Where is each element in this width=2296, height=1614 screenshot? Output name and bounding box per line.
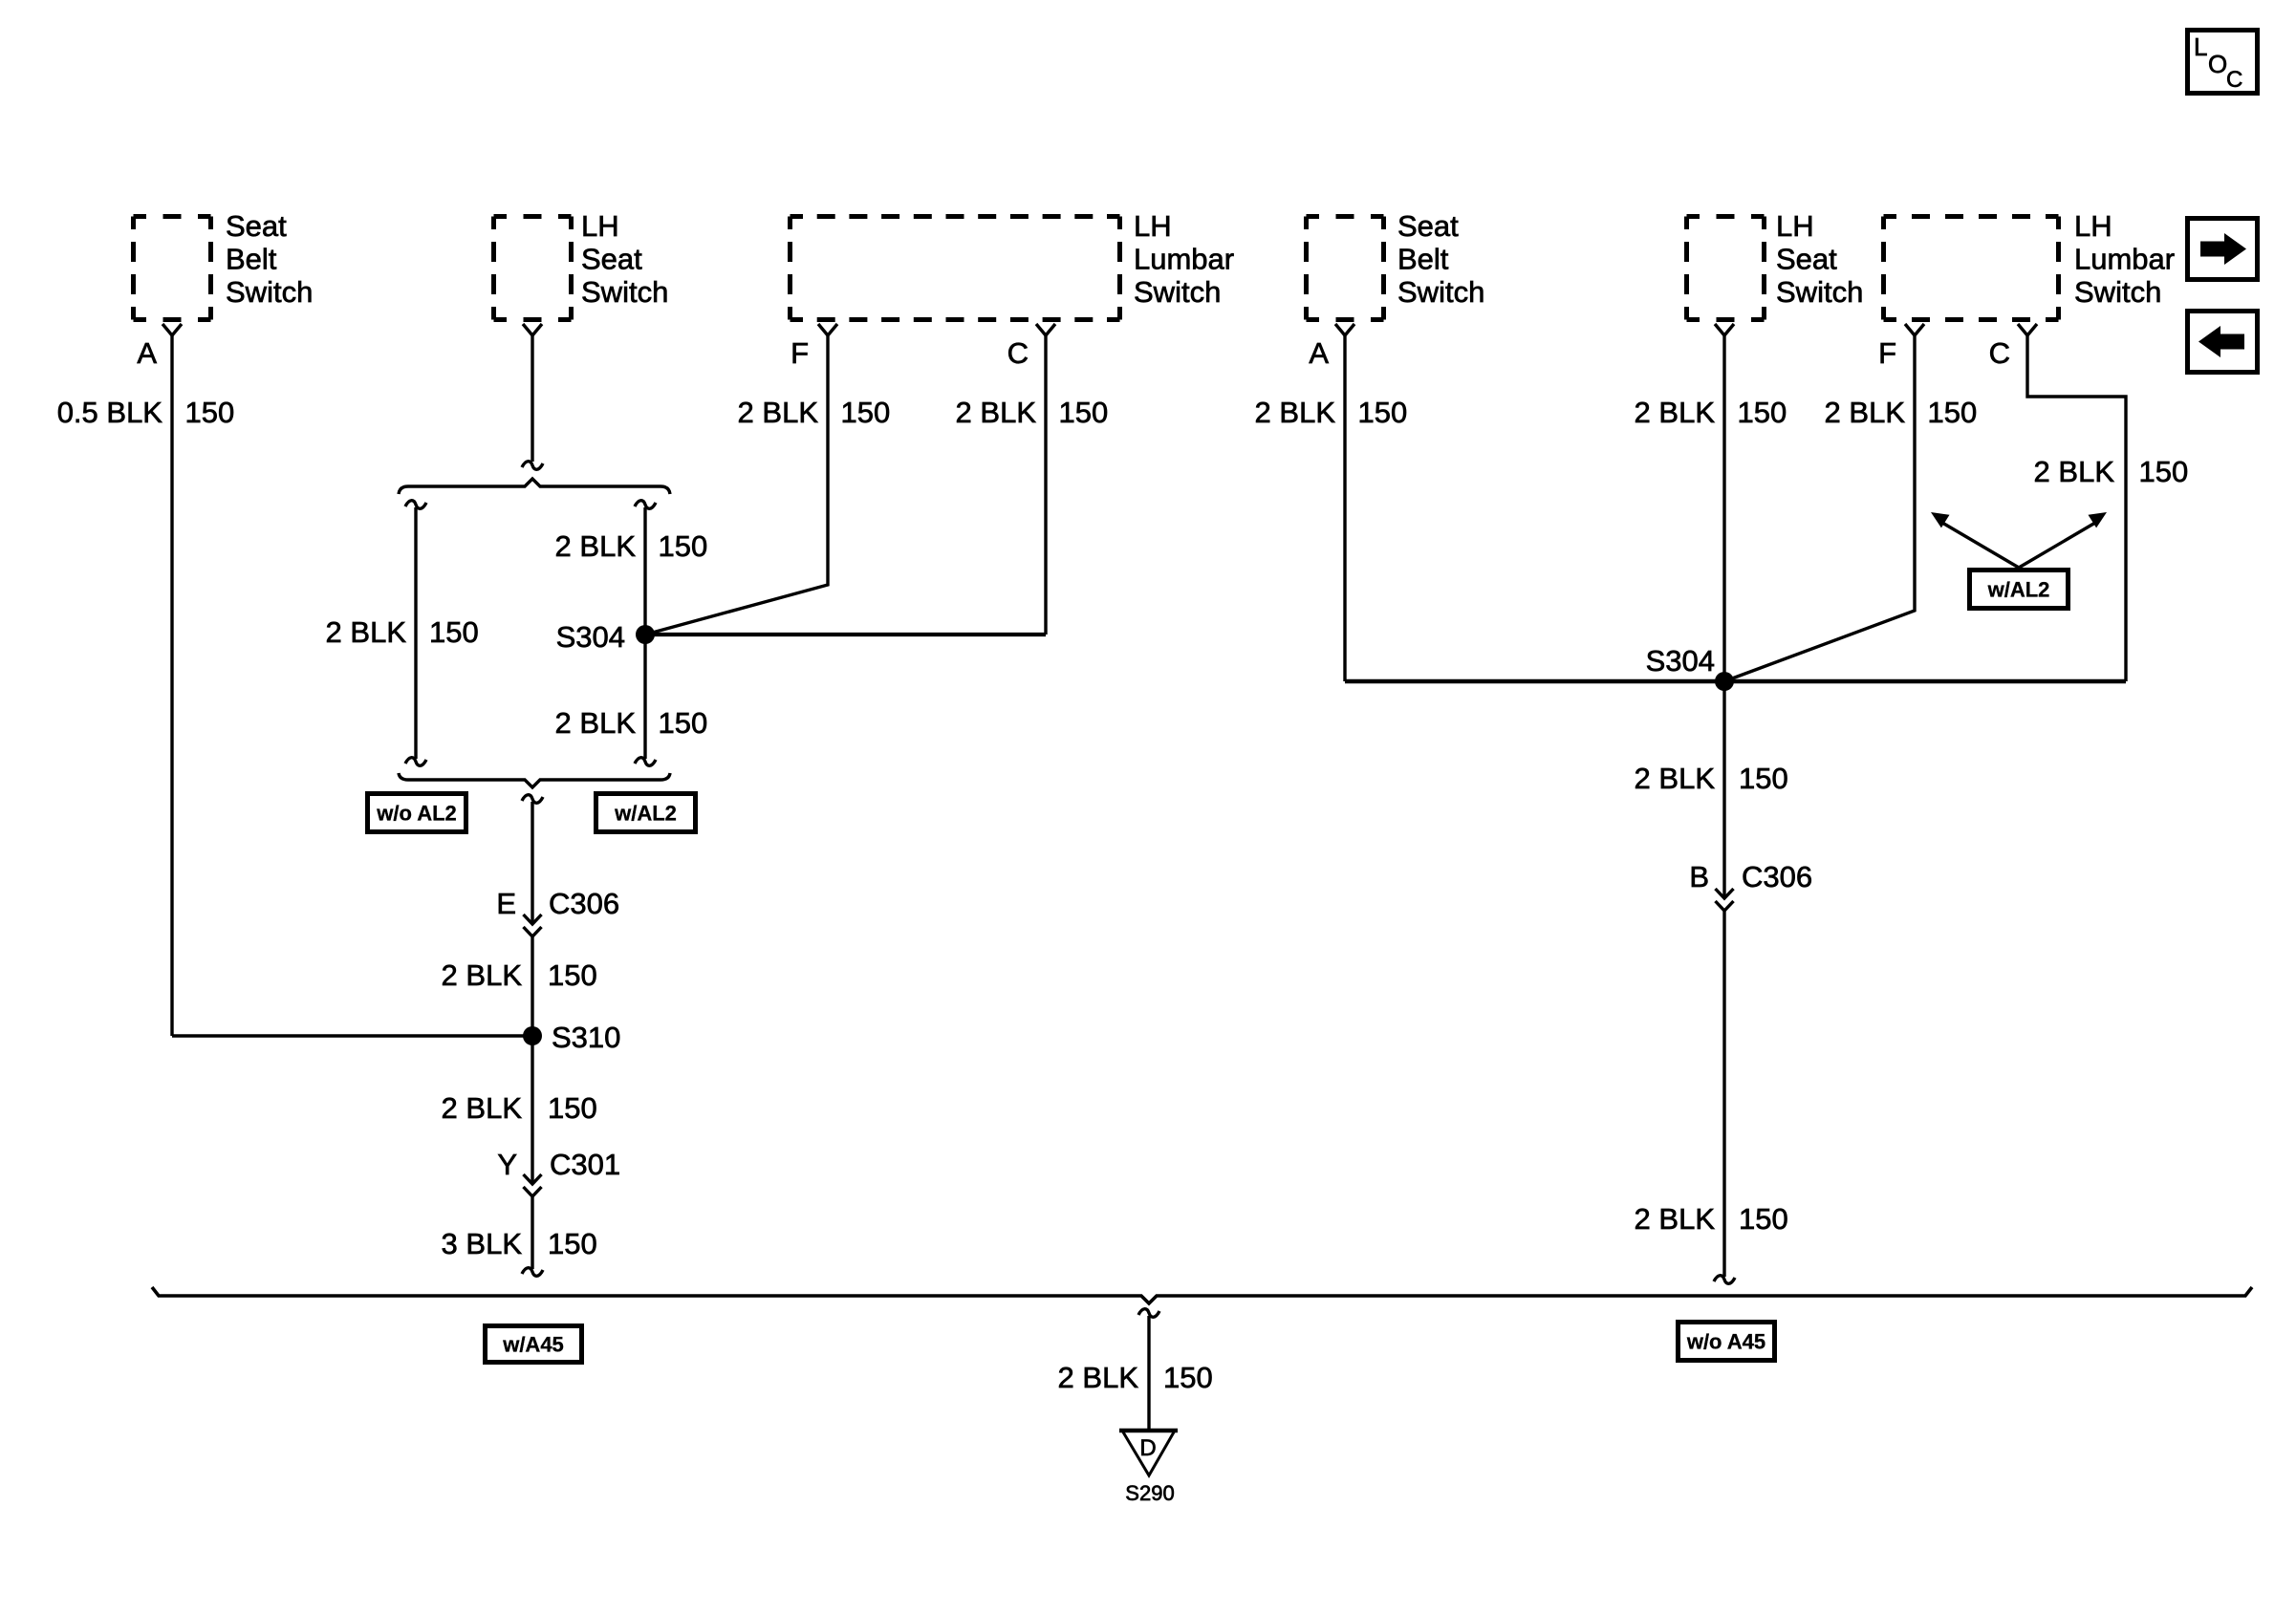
svg-text:150: 150 <box>429 615 479 649</box>
pin F of LH Lumbar Switch (right) <box>1905 324 1924 335</box>
wire break top of w/AL2 branch <box>635 501 656 509</box>
wire break top of w/o AL2 branch <box>405 501 426 509</box>
svg-text:150: 150 <box>659 529 708 563</box>
wire w/o AL2 branch 2 BLK 150 (left) <box>414 507 417 759</box>
svg-text:Switch: Switch <box>1397 275 1484 309</box>
svg-text:150: 150 <box>659 706 708 740</box>
svg-text:B: B <box>1689 860 1709 893</box>
svg-text:150: 150 <box>185 396 235 429</box>
svg-text:S304: S304 <box>1646 644 1715 678</box>
label LH Seat Switch (left) <box>581 209 668 309</box>
svg-text:150: 150 <box>548 1227 597 1260</box>
label LH Lumbar Switch (right) <box>2074 209 2175 309</box>
wire break bottom of w/AL2 branch <box>635 758 656 766</box>
wire 2 BLK 150 from pin C to splice S304 (right) <box>2027 335 2126 681</box>
svg-text:150: 150 <box>2139 455 2189 488</box>
wire from harness split to connector C306 pin E <box>531 802 533 924</box>
svg-text:150: 150 <box>1738 396 1787 429</box>
svg-text:3 BLK: 3 BLK <box>442 1227 523 1260</box>
brace: harness alternatives bottom (left) <box>399 773 670 787</box>
svg-text:Switch: Switch <box>1134 275 1221 309</box>
svg-text:C301: C301 <box>550 1148 620 1181</box>
connector box: Seat Belt Switch (left) <box>134 217 211 320</box>
svg-text:Belt: Belt <box>1397 243 1449 276</box>
svg-text:LH: LH <box>2074 209 2112 243</box>
splice S304 (right) <box>1715 672 1734 691</box>
wire break above main harness brace (left) <box>522 1268 543 1277</box>
label Seat Belt Switch (left) <box>226 209 313 309</box>
svg-text:C306: C306 <box>1742 860 1812 893</box>
main junction run from pin A wire to pin C wire through S304 (right) <box>1345 679 2126 684</box>
pin C of LH Lumbar Switch (left) <box>1036 324 1055 335</box>
wire 2 BLK 150 from C306 to splice S310 <box>531 936 533 1184</box>
svg-text:150: 150 <box>1739 1202 1788 1236</box>
wire 2 BLK 150 from pin F to splice S304 (right) <box>1724 335 1915 681</box>
wire 3 BLK 150 from C301 to w/A45 harness <box>531 1196 533 1269</box>
svg-text:Seat: Seat <box>1776 243 1837 276</box>
svg-text:2 BLK: 2 BLK <box>1635 396 1716 429</box>
svg-text:2 BLK: 2 BLK <box>326 615 407 649</box>
svg-text:S304: S304 <box>556 620 625 654</box>
option box w/A45 <box>486 1326 582 1363</box>
wire break below harness braces (left) <box>522 795 543 804</box>
svg-text:150: 150 <box>1739 762 1788 795</box>
svg-text:w/AL2: w/AL2 <box>1987 578 2050 602</box>
wire 2 BLK 150 from S304 to connector C306 pin B <box>1722 681 1725 898</box>
svg-text:150: 150 <box>1163 1361 1213 1394</box>
svg-text:0.5 BLK: 0.5 BLK <box>57 396 163 429</box>
option box w/AL2 (right) with pointer arrows <box>1970 570 2069 609</box>
wire 2 BLK 150 to ground G-D <box>1147 1316 1150 1431</box>
svg-text:2 BLK: 2 BLK <box>555 529 637 563</box>
svg-text:A: A <box>137 336 157 370</box>
svg-text:150: 150 <box>1358 396 1408 429</box>
svg-text:w/o AL2: w/o AL2 <box>376 802 457 826</box>
svg-text:Lumbar: Lumbar <box>2074 243 2175 276</box>
option box w/AL2 (left) <box>596 794 696 832</box>
svg-text:D: D <box>1139 1435 1156 1461</box>
label LH Lumbar Switch (left) <box>1134 209 1234 309</box>
splice S304 (left) <box>636 625 655 644</box>
svg-text:Seat: Seat <box>1397 209 1459 243</box>
svg-text:2 BLK: 2 BLK <box>2034 455 2115 488</box>
wire w/AL2 branch upper 2 BLK 150 (left) <box>643 507 646 759</box>
nav box arrow left <box>2188 312 2258 373</box>
svg-text:Lumbar: Lumbar <box>1134 243 1234 276</box>
svg-text:w/o A45: w/o A45 <box>1686 1330 1765 1354</box>
svg-text:C306: C306 <box>549 887 619 920</box>
svg-text:w/A45: w/A45 <box>502 1333 564 1357</box>
wire break below main harness brace <box>1138 1309 1159 1318</box>
brace: main harness alternatives (w/A45 vs w/o A45) <box>152 1287 2252 1303</box>
svg-text:150: 150 <box>548 1091 597 1125</box>
option box w/o A45 <box>1679 1323 1775 1361</box>
svg-text:2 BLK: 2 BLK <box>956 396 1037 429</box>
connector box: Seat Belt Switch (right) <box>1307 217 1384 320</box>
svg-text:E: E <box>496 887 516 920</box>
svg-text:2 BLK: 2 BLK <box>1635 1202 1716 1236</box>
svg-text:O: O <box>2208 50 2227 78</box>
svg-text:LH: LH <box>1134 209 1172 243</box>
connector box: LH Seat Switch (right) <box>1687 217 1765 320</box>
svg-text:Belt: Belt <box>226 243 277 276</box>
in-line connector C306 pin E symbol <box>524 915 542 924</box>
svg-text:2 BLK: 2 BLK <box>555 706 637 740</box>
svg-text:S290: S290 <box>1125 1481 1174 1505</box>
wire from S304 to LH Lumbar Switch pin C (left), horizontal run <box>645 633 1046 636</box>
wire from S304 to LH Lumbar Switch pin F (left), diagonal+vertical <box>645 335 828 635</box>
svg-text:Switch: Switch <box>226 275 313 309</box>
svg-text:Seat: Seat <box>581 243 642 276</box>
pin of LH Seat Switch (left) <box>523 324 542 335</box>
wire from pin A to splice S310, horizontal run <box>172 1034 532 1037</box>
pin A of Seat Belt Switch (right) <box>1335 324 1354 335</box>
svg-text:Switch: Switch <box>2074 275 2161 309</box>
svg-text:LH: LH <box>581 209 619 243</box>
nav box arrow right <box>2188 219 2258 280</box>
svg-text:F: F <box>791 336 809 370</box>
svg-text:C: C <box>1007 336 1029 370</box>
in-line connector C301 pin Y symbol <box>524 1174 542 1184</box>
svg-text:w/AL2: w/AL2 <box>614 802 677 826</box>
option box w/o AL2 <box>368 794 466 832</box>
svg-text:Switch: Switch <box>581 275 668 309</box>
label LH Seat Switch (right) <box>1776 209 1863 309</box>
svg-text:Switch: Switch <box>1776 275 1863 309</box>
splice S310 <box>523 1026 542 1045</box>
connector box: LH Lumbar Switch (left) <box>791 217 1120 320</box>
svg-text:LH: LH <box>1776 209 1814 243</box>
wire 2 BLK 150 from LH Seat Switch to splice S304 (right) <box>1722 335 1725 681</box>
svg-text:Seat: Seat <box>226 209 287 243</box>
svg-text:Y: Y <box>497 1148 517 1181</box>
wire break above main harness brace (right) <box>1714 1276 1735 1284</box>
wire 0.5 BLK 150 from pin A (left), vertical run <box>170 335 173 1036</box>
svg-text:C: C <box>1989 336 2010 370</box>
wire 2 BLK 150 from C306 to w/o A45 harness <box>1722 911 1725 1277</box>
brace: harness alternatives top (left) <box>399 479 670 494</box>
pointer arrow from w/AL2 to pin C wire <box>2019 523 2095 568</box>
svg-text:150: 150 <box>1059 396 1109 429</box>
LOC legend box <box>2188 31 2258 94</box>
svg-text:2 BLK: 2 BLK <box>442 958 523 992</box>
svg-text:2 BLK: 2 BLK <box>442 1091 523 1125</box>
pin F of LH Lumbar Switch (left) <box>818 324 837 335</box>
connector box: LH Lumbar Switch (right) <box>1884 217 2059 320</box>
svg-text:A: A <box>1309 336 1329 370</box>
svg-text:150: 150 <box>1928 396 1978 429</box>
svg-text:2 BLK: 2 BLK <box>1825 396 1906 429</box>
svg-text:L: L <box>2194 32 2207 61</box>
svg-text:150: 150 <box>548 958 597 992</box>
wire break at harness split (left) <box>522 462 543 470</box>
connector box: LH Seat Switch (left) <box>494 217 572 320</box>
pin C of LH Lumbar Switch (right) <box>2018 324 2037 335</box>
label Seat Belt Switch (right) <box>1397 209 1484 309</box>
svg-text:2 BLK: 2 BLK <box>1635 762 1716 795</box>
wire from LH Seat Switch pin down to harness split (left) <box>531 335 533 462</box>
wire 2 BLK 150 from pin A (right) <box>1343 335 1346 681</box>
in-line connector C306 pin B symbol <box>1716 889 1734 898</box>
svg-text:2 BLK: 2 BLK <box>1255 396 1336 429</box>
pointer arrow from w/AL2 to pin F wire <box>1942 523 2019 568</box>
wire break bottom of w/o AL2 branch <box>405 758 426 766</box>
pin of LH Seat Switch (right) <box>1715 324 1734 335</box>
svg-text:2 BLK: 2 BLK <box>1058 1361 1139 1394</box>
wire from S304 to LH Lumbar Switch pin C (left), vertical run <box>1044 335 1047 635</box>
pin A of Seat Belt Switch (left) <box>162 324 182 335</box>
ground symbol D <box>1122 1431 1175 1475</box>
svg-text:F: F <box>1878 336 1896 370</box>
svg-text:150: 150 <box>841 396 891 429</box>
svg-text:S310: S310 <box>552 1021 620 1054</box>
svg-text:2 BLK: 2 BLK <box>738 396 819 429</box>
svg-text:C: C <box>2226 67 2242 93</box>
